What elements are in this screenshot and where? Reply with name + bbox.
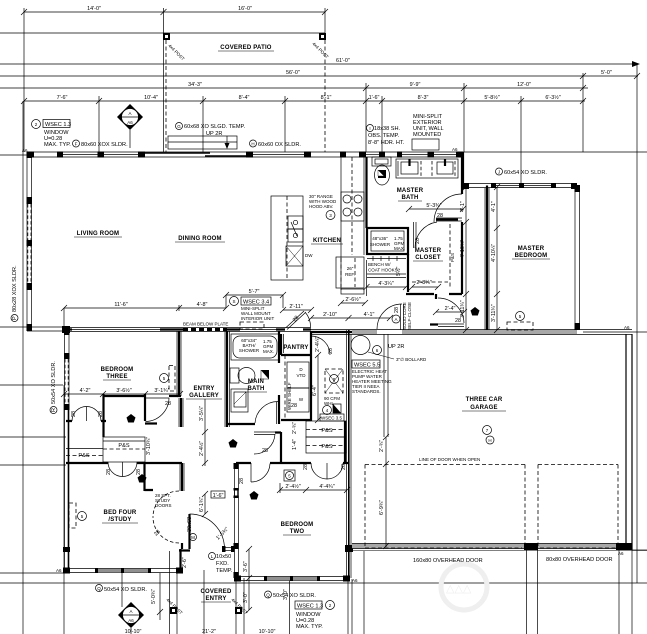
svg-text:10'-10": 10'-10" xyxy=(259,629,276,634)
svg-text:P&S: P&S xyxy=(321,428,332,434)
garage top wall y332 gray xyxy=(352,330,377,334)
svg-text:2'-¾": 2'-¾" xyxy=(379,440,385,452)
svg-text:WSEC 3.5: WSEC 3.5 xyxy=(321,416,343,421)
svg-text:4'-3¼": 4'-3¼" xyxy=(378,281,393,287)
mini split interior dashed xyxy=(240,322,264,329)
bed3 south wall y396 xyxy=(104,395,182,397)
master suite: bath east wall x462 xyxy=(461,157,463,294)
bed3 closet shelf xyxy=(66,448,103,450)
dim master v left x466 xyxy=(465,187,467,330)
svg-text:THREE CAR: THREE CAR xyxy=(466,397,503,403)
svg-text:H: H xyxy=(251,142,254,147)
svg-text:34'-3": 34'-3" xyxy=(188,82,202,88)
garage interior wall x386 xyxy=(384,334,388,437)
slider door G panels xyxy=(145,152,210,154)
dim line 61ft y64 xyxy=(0,63,638,65)
svg-text:4'-1": 4'-1" xyxy=(460,201,466,212)
black pentagons xyxy=(127,414,136,423)
grid v x635 xyxy=(636,64,638,583)
svg-text:DW: DW xyxy=(305,253,313,258)
svg-text:4'-10¼": 4'-10¼" xyxy=(491,244,497,262)
svg-text:A6: A6 xyxy=(452,147,458,152)
master bedroom top wall y187 xyxy=(463,183,577,185)
svg-text:BEAM BELOW PLATE: BEAM BELOW PLATE xyxy=(183,322,228,327)
bed four entry wall x144.5 xyxy=(145,462,154,491)
front door leaf xyxy=(188,514,190,549)
bed5 floor box master xyxy=(507,322,533,330)
patio side dashed left xyxy=(165,40,167,152)
svg-text:WSEC 3.4: WSEC 3.4 xyxy=(243,300,269,306)
vanity windows glazing xyxy=(402,154,428,156)
svg-text:A6: A6 xyxy=(22,148,28,153)
svg-text:COVERED: COVERED xyxy=(200,589,232,595)
master vanity counter xyxy=(396,159,458,178)
svg-text:R: R xyxy=(51,408,57,412)
svg-text:28: 28 xyxy=(136,469,142,475)
sheet line y437 left xyxy=(0,436,66,438)
laundry boxes xyxy=(287,362,309,388)
svg-text:REF.: REF. xyxy=(345,272,355,277)
dim hall y318 xyxy=(311,317,390,319)
svg-text:STANDARDS.: STANDARDS. xyxy=(352,389,381,394)
entry jog vertical x180 xyxy=(179,549,181,570)
master bedroom west wall x487 xyxy=(486,186,488,331)
svg-text:△△△: △△△ xyxy=(446,583,472,595)
svg-text:I: I xyxy=(369,126,370,131)
svg-text:80x80 OVERHEAD DOOR: 80x80 OVERHEAD DOOR xyxy=(546,557,613,563)
patio post right xyxy=(319,33,326,40)
svg-text:Q: Q xyxy=(97,586,101,591)
dim master v inner x497 xyxy=(496,187,498,330)
svg-text:28: 28 xyxy=(328,348,334,354)
dim entry v x205 xyxy=(204,494,206,514)
svg-text:A6: A6 xyxy=(352,578,358,583)
svg-text:2'-4½": 2'-4½" xyxy=(198,441,205,456)
window J blocks xyxy=(491,183,496,188)
island sinks xyxy=(288,216,303,229)
svg-text:BATH: BATH xyxy=(247,386,264,392)
svg-text:ENTRY: ENTRY xyxy=(205,596,226,602)
steps down arrow xyxy=(226,136,228,147)
bedroom two front wall y578 xyxy=(234,576,350,578)
window L label xyxy=(209,553,216,560)
left wall base xyxy=(26,152,28,331)
window R blocks xyxy=(64,329,70,335)
top wall base double line xyxy=(27,151,463,153)
svg-text:F: F xyxy=(75,142,78,147)
garage corner block right xyxy=(616,543,632,550)
elevation diamond bottom xyxy=(118,602,144,634)
svg-text:P&S: P&S xyxy=(450,253,455,262)
closet door leaf xyxy=(413,222,415,248)
svg-text:5'-8½": 5'-8½" xyxy=(484,94,499,101)
svg-text:2'-6": 2'-6" xyxy=(182,557,188,568)
mini split exterior unit xyxy=(412,139,439,150)
svg-text:28: 28 xyxy=(303,464,309,470)
svg-text:6'-4": 6'-4" xyxy=(312,385,318,396)
patio post left xyxy=(163,33,170,40)
svg-text:28: 28 xyxy=(455,318,461,324)
grid v porch lines xyxy=(169,551,171,634)
svg-text:THREE: THREE xyxy=(106,374,127,380)
grid v x23 xyxy=(22,101,24,634)
svg-text:2'-4½": 2'-4½" xyxy=(285,483,300,490)
svg-text:5'-7": 5'-7" xyxy=(249,289,260,295)
svg-text:TEMP.: TEMP. xyxy=(216,568,233,574)
svg-text:TWO: TWO xyxy=(290,529,305,535)
ticks on y88 xyxy=(363,85,586,91)
svg-text:A: A xyxy=(129,609,132,614)
svg-text:HOOD ABV.: HOOD ABV. xyxy=(309,204,333,209)
kitchen counter xyxy=(340,157,342,290)
svg-text:4'-4¾": 4'-4¾" xyxy=(319,484,334,490)
svg-text:50x54 XO SLDR.: 50x54 XO SLDR. xyxy=(104,587,147,593)
bed four closet doors y462 xyxy=(66,462,182,464)
svg-text:GALLERY: GALLERY xyxy=(189,393,219,399)
dim bench y287 xyxy=(367,286,407,288)
dim bed2 v x249 xyxy=(248,549,250,610)
hall wall y424 short xyxy=(145,422,157,424)
grid v x364 xyxy=(363,551,365,634)
svg-text:MASTER: MASTER xyxy=(518,246,545,252)
beam below plate dashes xyxy=(183,328,227,331)
window 5 dashed niche xyxy=(69,503,76,528)
svg-text:21'-2": 21'-2" xyxy=(202,629,216,634)
window P blocks xyxy=(27,152,33,158)
svg-text:LINE OF DOOR WHEN OPEN: LINE OF DOOR WHEN OPEN xyxy=(419,457,480,462)
dim row living y308 xyxy=(64,307,226,309)
svg-text:5'-3¾": 5'-3¾" xyxy=(426,203,441,209)
sheet line y33 xyxy=(0,32,166,34)
svg-text:UP 2R: UP 2R xyxy=(388,344,404,350)
garage right wall x630 xyxy=(625,334,627,550)
main bath fan box xyxy=(261,370,269,379)
ticks on y76 xyxy=(580,73,640,79)
dim line lower y101 xyxy=(24,100,585,102)
svg-text:A6: A6 xyxy=(624,325,630,330)
svg-text:80x28 XOX SLDR.: 80x28 XOX SLDR. xyxy=(12,265,18,312)
top wall stud blocks xyxy=(27,152,34,158)
watermark xyxy=(441,564,487,610)
hall closet box xyxy=(103,437,145,462)
window J label xyxy=(496,168,503,175)
svg-text:SHOWER: SHOWER xyxy=(239,348,260,353)
svg-text:16'-0": 16'-0" xyxy=(238,6,252,12)
svg-text:50x54 XO SLDR.: 50x54 XO SLDR. xyxy=(51,361,57,404)
svg-text:28: 28 xyxy=(394,307,400,313)
svg-text:2'-8¼": 2'-8¼" xyxy=(416,280,431,286)
svg-text:18x38 SH.: 18x38 SH. xyxy=(374,126,401,132)
svg-text:5½": 5½" xyxy=(395,267,402,276)
svg-text:12'-0": 12'-0" xyxy=(517,82,531,88)
window I glazing xyxy=(366,154,379,156)
dim laundry v x318 xyxy=(317,355,319,420)
svg-text:28: 28 xyxy=(98,411,104,417)
dim q1 v x155 xyxy=(159,573,161,620)
svg-text:3'-0": 3'-0" xyxy=(243,592,249,603)
svg-text:DINING ROOM: DINING ROOM xyxy=(178,236,222,242)
mud door to garage leaf xyxy=(400,304,402,330)
svg-text:60x68 XO SLGD. TEMP.: 60x68 XO SLGD. TEMP. xyxy=(184,124,245,130)
svg-text:4'-8": 4'-8" xyxy=(197,302,208,308)
bedroom wing left wall xyxy=(64,329,66,572)
closet divider x103 xyxy=(102,394,104,437)
sheet line y155 left xyxy=(0,154,27,156)
svg-text:3'-11¾": 3'-11¾" xyxy=(491,304,497,322)
svg-text:SHOWER: SHOWER xyxy=(370,242,391,247)
patio steps xyxy=(168,136,237,149)
svg-text:1'-4": 1'-4" xyxy=(292,439,298,450)
svg-text:4'-10¾": 4'-10¾" xyxy=(460,240,466,258)
svg-text:3'-11¾": 3'-11¾" xyxy=(460,300,466,318)
sheet line y152 right xyxy=(463,151,647,153)
bed3 door arc xyxy=(146,398,170,422)
svg-text:BEDROOM: BEDROOM xyxy=(515,253,548,259)
grid v pier lines xyxy=(526,550,528,634)
svg-text:A6: A6 xyxy=(56,568,62,573)
wsec13 bottom xyxy=(295,601,322,609)
svg-text:S: S xyxy=(232,299,235,304)
dim 14-0 / 16-0 top line xyxy=(24,11,325,13)
svg-text:6'-1¾": 6'-1¾" xyxy=(199,497,205,512)
window Q2 gray panes xyxy=(266,577,291,580)
hall closet P&S boxes xyxy=(306,421,346,437)
svg-text:3'-6": 3'-6" xyxy=(243,561,249,572)
svg-text:BATH: BATH xyxy=(401,195,418,201)
svg-text:A6: A6 xyxy=(128,618,134,623)
svg-text:DOORS: DOORS xyxy=(155,503,172,508)
garage corner block xyxy=(345,545,353,552)
svg-text:60x60 OX SLDR.: 60x60 OX SLDR. xyxy=(258,142,301,148)
top wall master jog x463 xyxy=(462,152,464,186)
wsec55 water heater label xyxy=(352,360,380,368)
bottom wall bed four y570 xyxy=(64,568,183,570)
svg-text:6'-9¾": 6'-9¾" xyxy=(379,500,385,515)
garage numbered hexagons xyxy=(483,426,492,435)
grid v x348 xyxy=(347,579,349,634)
svg-text:ENTRY: ENTRY xyxy=(193,386,214,392)
svg-text:1'-6": 1'-6" xyxy=(213,493,224,499)
bench hall east wall x408 xyxy=(407,254,409,292)
bedroom two west niche xyxy=(234,488,239,491)
wsec13 hexagon2 top xyxy=(32,120,41,129)
dim bed2 y490 xyxy=(280,489,347,491)
svg-text:G: G xyxy=(177,124,181,129)
vanity sink left xyxy=(401,162,418,174)
svg-text:26": 26" xyxy=(347,266,354,271)
svg-text:61'-0": 61'-0" xyxy=(336,58,350,64)
svg-text:56'-0": 56'-0" xyxy=(286,70,300,76)
pantry door diagonal leaf xyxy=(286,311,305,328)
svg-text:MOUNTED: MOUNTED xyxy=(413,132,441,138)
junction block x66 y549 xyxy=(63,547,70,552)
svg-text:10x50: 10x50 xyxy=(216,554,231,560)
sheet line y550 right xyxy=(632,549,647,551)
svg-text:PANTRY: PANTRY xyxy=(283,345,308,351)
window glazing line F xyxy=(63,154,138,156)
dim line 34-3 y88 xyxy=(0,87,588,89)
svg-text:WSEC 1.3: WSEC 1.3 xyxy=(297,604,323,610)
bedroom three east wall x179 xyxy=(178,331,180,396)
svg-text:VTD: VTD xyxy=(297,373,307,378)
window H label xyxy=(250,140,257,147)
garage front wall y547 gray xyxy=(352,544,632,549)
svg-text:28: 28 xyxy=(165,401,171,407)
svg-text:H: H xyxy=(488,438,491,443)
svg-text:11'-6": 11'-6" xyxy=(114,302,127,308)
closet door arc xyxy=(415,222,437,248)
svg-text:7'-6": 7'-6" xyxy=(57,95,68,101)
jog wall y329 x27-64 xyxy=(27,326,66,328)
furnace closet dashed xyxy=(325,369,343,393)
wsec55 leader xyxy=(368,352,394,359)
svg-text:COVERED PATIO: COVERED PATIO xyxy=(220,45,272,51)
svg-text:50x54 XO SLDR.: 50x54 XO SLDR. xyxy=(273,593,316,599)
svg-text:2'-11": 2'-11" xyxy=(289,304,302,310)
bed four study doors dashed arcs xyxy=(153,491,179,543)
extension verticals from dims to wall xyxy=(98,96,100,152)
svg-text:WSEC 5.5: WSEC 5.5 xyxy=(354,363,380,369)
window Q1 label xyxy=(96,585,103,592)
svg-text:5'-0¾": 5'-0¾" xyxy=(151,589,157,604)
window Q2 label xyxy=(265,591,272,598)
bed3 door leaf xyxy=(145,397,169,399)
elevation diamond A/A6 top xyxy=(117,104,143,148)
dim 1-6 boxed xyxy=(211,491,225,498)
window P dashes xyxy=(28,204,31,283)
svg-text:P&S: P&S xyxy=(78,453,89,459)
svg-text:WSEC 1.3: WSEC 1.3 xyxy=(45,122,71,128)
svg-text:30x68: 30x68 xyxy=(187,517,193,532)
svg-text:MAX.: MAX. xyxy=(263,349,274,354)
vanity sink right xyxy=(437,162,453,174)
svg-text:3'-1¾": 3'-1¾" xyxy=(154,388,169,394)
svg-text:2'-4¼": 2'-4¼" xyxy=(315,337,321,352)
svg-text:A6: A6 xyxy=(618,551,624,556)
svg-text:MAX. TYP.: MAX. TYP. xyxy=(44,142,71,148)
water heater circle xyxy=(351,336,370,355)
svg-text:OBS. TEMP.: OBS. TEMP. xyxy=(368,133,400,139)
closet south wall y294 xyxy=(406,293,462,295)
dim entry v x205 xyxy=(204,399,206,466)
fridge xyxy=(336,257,364,288)
svg-text:1'-6": 1'-6" xyxy=(369,95,380,101)
svg-text:MASTER: MASTER xyxy=(397,188,424,194)
bath door leaf xyxy=(276,402,278,424)
master bath toilet xyxy=(372,157,391,166)
bedroom two left wall xyxy=(234,463,236,578)
svg-text:9'-9": 9'-9" xyxy=(410,82,421,88)
entry front wall segment xyxy=(179,549,190,551)
grid v x619 x632 below garage xyxy=(618,550,620,634)
svg-text:48"x36": 48"x36" xyxy=(372,236,388,241)
closet entry door arc xyxy=(438,298,464,323)
pantry east door arc xyxy=(311,336,330,355)
dim closet door y312 xyxy=(436,311,464,313)
svg-text:3'-0": 3'-0" xyxy=(283,589,289,600)
svg-text:28: 28 xyxy=(291,403,297,409)
window I label xyxy=(367,125,374,132)
sheet line y332 right xyxy=(583,331,647,333)
vestibule door leaf xyxy=(254,431,275,433)
svg-text:4'-1": 4'-1" xyxy=(364,312,375,318)
svg-text:3'-5¼": 3'-5¼" xyxy=(199,406,205,421)
mud door arc xyxy=(377,304,402,329)
svg-text:J: J xyxy=(498,170,500,175)
svg-text:BEDROOM: BEDROOM xyxy=(281,522,314,528)
svg-text:10'-4": 10'-4" xyxy=(144,95,158,101)
garage door open dashed rects xyxy=(364,465,366,547)
bench with coat hooks xyxy=(367,258,406,260)
dishwasher X xyxy=(286,246,303,266)
vestibule door arc xyxy=(254,434,275,454)
bed two closet doors xyxy=(311,463,343,479)
sidelight window L xyxy=(222,546,226,552)
grid v x64 xyxy=(63,385,65,634)
closet divider wall y219.5 xyxy=(436,217,462,219)
svg-text:28: 28 xyxy=(262,448,268,454)
svg-text:MASTER: MASTER xyxy=(415,248,442,254)
svg-text:5'-0": 5'-0" xyxy=(601,70,612,76)
sheet line y465 left xyxy=(0,464,66,466)
svg-text:28: 28 xyxy=(71,411,77,417)
svg-text:A: A xyxy=(128,111,131,116)
sheet line y583 full xyxy=(0,582,647,584)
dim row bed3 y394 xyxy=(64,393,180,395)
svg-text:8'-8" HDR. HT.: 8'-8" HDR. HT. xyxy=(368,140,405,146)
svg-text:INTERIOR UNIT: INTERIOR UNIT xyxy=(241,316,275,321)
svg-text:COAT HOOKS: COAT HOOKS xyxy=(368,268,398,273)
entry porch posts xyxy=(170,607,177,614)
svg-text:8'-3": 8'-3" xyxy=(418,95,429,101)
svg-text:BEDROOM: BEDROOM xyxy=(101,367,134,373)
main bath sink xyxy=(231,389,248,412)
svg-text:MAX.: MAX. xyxy=(394,246,405,251)
svg-text:P&S: P&S xyxy=(321,444,332,450)
tick marks top dim xyxy=(21,9,328,15)
grid v x122 window ext xyxy=(121,573,123,607)
svg-text:8'-4": 8'-4" xyxy=(239,95,250,101)
svg-text:UP 2R: UP 2R xyxy=(206,131,222,137)
svg-text:LIVING ROOM: LIVING ROOM xyxy=(77,231,120,237)
dim line 56ft y76 xyxy=(0,75,638,77)
exhaust fan box xyxy=(333,404,341,413)
window F label xyxy=(73,140,80,147)
arrow right end y64 xyxy=(632,61,640,67)
svg-text:P&S: P&S xyxy=(118,443,129,449)
kitchen island xyxy=(271,196,303,280)
svg-text:CLOSET: CLOSET xyxy=(415,255,441,261)
svg-text:14'-0": 14'-0" xyxy=(87,6,101,12)
svg-text:3'-10¾": 3'-10¾" xyxy=(146,437,152,455)
svg-text:KITCHEN: KITCHEN xyxy=(313,238,341,244)
bedroom three closet wall y421 xyxy=(66,420,106,422)
svg-text:28: 28 xyxy=(239,478,245,484)
minisplit interior label xyxy=(230,297,239,306)
closet P&S dashed xyxy=(412,224,450,288)
svg-text:Q: Q xyxy=(266,593,270,598)
svg-text:FXD.: FXD. xyxy=(216,561,229,567)
dim closet y287 xyxy=(412,286,438,288)
dim master bath y209 xyxy=(409,208,463,210)
laundry wall y420 xyxy=(281,419,311,421)
pantry walls xyxy=(281,331,311,421)
svg-text:6'-3½": 6'-3½" xyxy=(545,94,560,101)
overhead door dashed lines xyxy=(365,547,522,549)
interior wall y329 living/bed wing xyxy=(64,327,311,329)
svg-text:BED FOUR: BED FOUR xyxy=(104,510,137,516)
bedroom three closet doors arcs xyxy=(72,407,101,422)
